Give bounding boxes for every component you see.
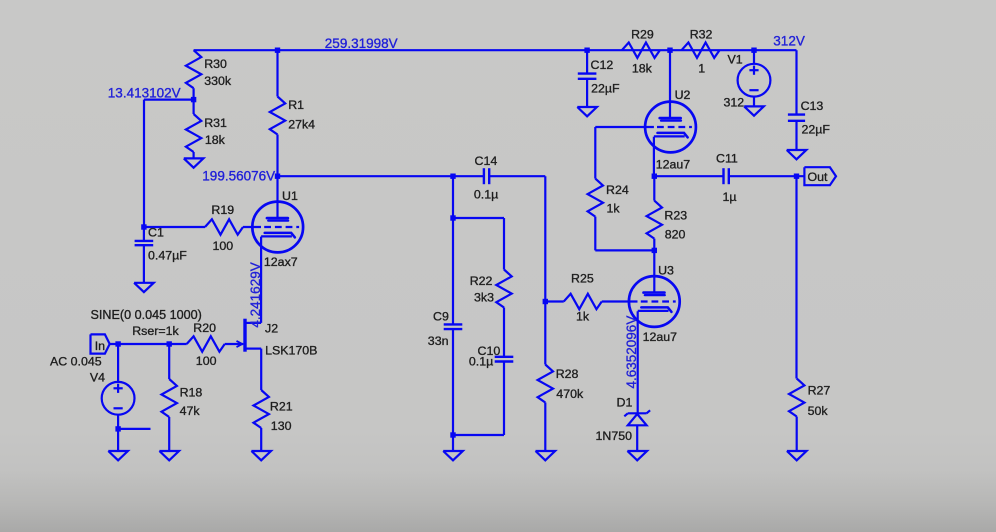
svg-text:U2: U2 (675, 88, 691, 102)
svg-text:1: 1 (698, 62, 705, 76)
svg-text:R25: R25 (571, 272, 594, 286)
svg-text:0.1µ: 0.1µ (474, 187, 498, 201)
svg-text:R20: R20 (193, 321, 216, 335)
svg-text:1µ: 1µ (723, 190, 737, 204)
svg-text:0.47µF: 0.47µF (148, 249, 187, 263)
svg-text:R24: R24 (606, 183, 629, 197)
svg-text:22µF: 22µF (591, 81, 620, 95)
svg-text:C12: C12 (591, 58, 614, 72)
svg-text:199.56076V: 199.56076V (202, 169, 275, 184)
svg-text:R28: R28 (556, 367, 579, 381)
svg-text:18k: 18k (632, 62, 653, 76)
svg-text:R21: R21 (270, 399, 293, 413)
svg-text:R30: R30 (204, 57, 227, 71)
svg-text:R23: R23 (664, 208, 687, 222)
svg-text:R18: R18 (180, 385, 203, 399)
svg-text:50k: 50k (808, 404, 829, 418)
svg-text:4.6352096V: 4.6352096V (624, 316, 639, 389)
svg-text:LSK170B: LSK170B (265, 344, 317, 358)
svg-text:V1: V1 (728, 53, 743, 67)
svg-text:1N750: 1N750 (596, 429, 633, 443)
svg-text:12ax7: 12ax7 (264, 255, 298, 269)
svg-text:1k: 1k (607, 202, 621, 216)
svg-text:330k: 330k (204, 74, 232, 88)
svg-text:R31: R31 (204, 116, 227, 130)
svg-text:470k: 470k (556, 387, 584, 401)
svg-text:13.413102V: 13.413102V (108, 86, 181, 101)
svg-text:AC 0.045: AC 0.045 (50, 355, 102, 369)
svg-text:R29: R29 (631, 27, 654, 41)
svg-text:R1: R1 (288, 98, 304, 112)
svg-text:27k4: 27k4 (288, 118, 315, 132)
svg-text:R22: R22 (470, 274, 493, 288)
svg-text:1k: 1k (576, 310, 590, 324)
svg-text:V4: V4 (90, 370, 105, 384)
svg-text:100: 100 (196, 354, 217, 368)
svg-text:U3: U3 (658, 263, 674, 277)
svg-text:312: 312 (724, 95, 745, 109)
svg-text:4.241629V: 4.241629V (248, 262, 263, 327)
svg-text:SINE(0 0.045 1000): SINE(0 0.045 1000) (91, 308, 202, 322)
svg-text:312V: 312V (773, 34, 805, 49)
svg-text:12au7: 12au7 (656, 158, 691, 172)
svg-text:U1: U1 (282, 189, 298, 203)
svg-text:C11: C11 (716, 152, 738, 166)
svg-text:22µF: 22µF (802, 122, 831, 136)
svg-text:R19: R19 (211, 203, 234, 217)
svg-text:820: 820 (665, 228, 686, 242)
svg-text:Out: Out (808, 170, 829, 184)
svg-text:12au7: 12au7 (643, 330, 678, 344)
svg-text:C1: C1 (148, 225, 164, 239)
svg-text:0.1µ: 0.1µ (469, 355, 493, 369)
svg-text:Rser=1k: Rser=1k (132, 324, 179, 338)
svg-text:3k3: 3k3 (474, 291, 494, 305)
svg-text:100: 100 (213, 239, 234, 253)
svg-text:33n: 33n (428, 334, 449, 348)
svg-text:18k: 18k (205, 133, 226, 147)
svg-text:R27: R27 (808, 384, 831, 398)
svg-text:130: 130 (271, 419, 292, 433)
svg-text:R32: R32 (690, 27, 713, 41)
svg-text:C9: C9 (433, 310, 449, 324)
svg-text:C14: C14 (475, 154, 498, 168)
svg-text:In: In (95, 339, 105, 353)
svg-text:C13: C13 (801, 99, 824, 113)
svg-text:259.31998V: 259.31998V (325, 36, 398, 51)
svg-text:D1: D1 (617, 396, 633, 410)
svg-text:J2: J2 (265, 322, 278, 336)
svg-text:47k: 47k (180, 404, 201, 418)
